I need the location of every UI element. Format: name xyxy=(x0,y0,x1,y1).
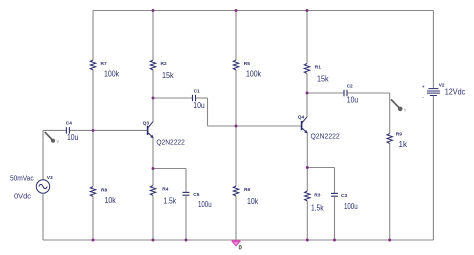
svg-text:R4: R4 xyxy=(162,186,168,192)
wire source vertical top xyxy=(42,130,44,179)
svg-text:10u: 10u xyxy=(193,101,204,110)
junction top rail at R5 xyxy=(235,9,238,12)
capacitor C5 xyxy=(183,192,190,195)
ac source V3 xyxy=(36,180,49,193)
capacitor C4 xyxy=(66,127,69,133)
svg-text:10k: 10k xyxy=(247,197,259,206)
wire C3 bottom to ground rail xyxy=(334,196,336,240)
wire Q4 emitter to R3 xyxy=(306,168,308,192)
wire Q4 emitter down xyxy=(306,133,308,168)
svg-text:1.5k: 1.5k xyxy=(164,196,177,205)
wire Q4 base node to R6 xyxy=(235,126,237,186)
wire branch x=153 (rail to R2) xyxy=(152,11,154,61)
wire input top: source to C4 xyxy=(43,129,66,131)
wire branch x=307 (rail to R1) xyxy=(306,11,308,64)
resistor R3 xyxy=(305,191,310,201)
wire top supply rail xyxy=(93,10,433,12)
junction Q4 emitter node xyxy=(306,166,309,169)
svg-text:100k: 100k xyxy=(246,69,262,78)
svg-text:100u: 100u xyxy=(344,202,358,211)
wire C1 corner down xyxy=(207,98,209,126)
wire left branch x=93 (rail to R7) xyxy=(92,11,94,61)
svg-text:-: - xyxy=(422,95,424,101)
resistor R6 xyxy=(233,186,238,196)
svg-text:10k: 10k xyxy=(105,196,117,205)
wire R2 bottom to Q3 collector node xyxy=(152,70,154,98)
wire R4 bottom to ground rail xyxy=(152,196,154,241)
wire branch x=433 (rail to V2) xyxy=(432,11,434,89)
wire R8 bottom to ground rail xyxy=(92,197,94,241)
capacitor C3 xyxy=(331,193,338,196)
svg-text:+: + xyxy=(422,84,425,90)
ground symbol 0 xyxy=(232,241,241,246)
junction ground rail at R9 xyxy=(388,239,391,242)
svg-text:100u: 100u xyxy=(198,200,212,209)
junction ground rail at R8 xyxy=(92,239,95,242)
wire R6 bottom to ground rail xyxy=(235,196,237,240)
wire source bottom to ground rail xyxy=(42,193,44,240)
wire Q3 collector up xyxy=(152,98,154,122)
resistor R5 xyxy=(233,60,238,70)
junction ground rail at C5 xyxy=(185,239,188,242)
transistor Q3 xyxy=(148,121,154,138)
resistor R1 xyxy=(304,64,309,74)
svg-text:50mVac: 50mVac xyxy=(10,173,34,182)
voltage probe marker at input node xyxy=(45,132,60,145)
resistor R4 xyxy=(150,186,155,196)
wire branch x=236 (rail to R5) xyxy=(235,11,237,61)
svg-text:10u: 10u xyxy=(347,95,358,104)
svg-text:R8: R8 xyxy=(101,187,107,193)
wire R9 bottom to ground rail xyxy=(389,144,391,241)
svg-text:R7: R7 xyxy=(101,61,107,67)
svg-text:Q3: Q3 xyxy=(143,120,150,126)
junction top rail at R2 xyxy=(152,9,155,12)
wire R3 bottom to ground rail xyxy=(306,201,308,240)
wire C1 right to corner xyxy=(196,97,208,99)
svg-text:V3: V3 xyxy=(47,175,53,181)
svg-text:R9: R9 xyxy=(396,132,402,138)
wire R1 bottom to Q4 collector node xyxy=(306,74,308,94)
capacitor C1 xyxy=(193,95,196,101)
junction ground rail at R4 xyxy=(152,239,155,242)
svg-text:1.5k: 1.5k xyxy=(311,204,324,213)
wire C2 to output corner xyxy=(347,92,389,94)
wire R7 bottom to input node xyxy=(92,70,94,130)
wire C5 top vertical xyxy=(185,169,187,193)
svg-text:100k: 100k xyxy=(104,70,120,79)
svg-text:C3: C3 xyxy=(341,193,347,199)
svg-text:R5: R5 xyxy=(244,61,250,67)
wire C3 top vertical xyxy=(334,168,336,194)
wire bottom ground rail xyxy=(43,239,433,241)
wire C4 to Q3 base xyxy=(70,129,148,131)
junction top rail at R1 xyxy=(306,9,309,12)
svg-text:C2: C2 xyxy=(347,84,353,90)
junction input node xyxy=(92,129,95,132)
svg-text:Q2N2222: Q2N2222 xyxy=(156,137,184,146)
wire input node to R8 xyxy=(92,130,94,186)
dc source V2 battery symbol xyxy=(422,84,440,101)
wire C5 bottom to ground rail xyxy=(185,195,187,240)
svg-text:15k: 15k xyxy=(162,71,174,80)
svg-text:R6: R6 xyxy=(244,187,250,193)
svg-text:0Vdc: 0Vdc xyxy=(14,191,31,200)
resistor R9 xyxy=(387,134,392,144)
svg-text:R2: R2 xyxy=(161,61,167,67)
junction Q4 base node xyxy=(235,125,238,128)
wire to Q4 base xyxy=(208,125,302,127)
wire output corner down to R9 xyxy=(389,93,391,134)
capacitor C2 xyxy=(344,90,347,96)
wire emitter branch to C5 xyxy=(153,168,186,170)
wire Q4 emitter branch to C3 xyxy=(307,167,334,169)
junction ground rail at C3 xyxy=(333,239,336,242)
wire Q4 collector node to C2 xyxy=(307,92,344,94)
resistor R7 xyxy=(90,60,95,70)
svg-text:R1: R1 xyxy=(315,65,321,71)
resistor R2 xyxy=(150,60,155,70)
wire Q3 emitter to R4 xyxy=(152,169,154,186)
svg-text:12Vdc: 12Vdc xyxy=(445,87,465,96)
svg-text:Q4: Q4 xyxy=(298,114,305,120)
junction Q4 collector node xyxy=(306,92,309,95)
junction ground rail at R3 xyxy=(306,239,309,242)
wire Q3 collector node to C1 xyxy=(153,97,192,99)
svg-text:1k: 1k xyxy=(399,140,408,149)
svg-text:10u: 10u xyxy=(67,133,78,142)
svg-text:C1: C1 xyxy=(194,89,200,95)
svg-text:C4: C4 xyxy=(66,120,72,126)
svg-text:0: 0 xyxy=(239,245,243,251)
resistor R8 xyxy=(90,187,95,197)
junction Q3 emitter node xyxy=(152,167,155,170)
svg-text:v: v xyxy=(57,139,60,145)
svg-text:v: v xyxy=(404,107,407,113)
svg-text:Q2N2222: Q2N2222 xyxy=(311,132,340,141)
wire R5 bottom to Q4 base node xyxy=(235,70,237,126)
junction Q3 collector node xyxy=(152,97,155,100)
svg-text:15k: 15k xyxy=(317,75,329,84)
wire Q4 collector up xyxy=(306,93,308,117)
svg-text:R3: R3 xyxy=(314,192,320,198)
wire V2 bottom to ground rail xyxy=(432,96,434,240)
voltage probe marker at output node xyxy=(391,99,407,113)
wire Q3 emitter down xyxy=(152,138,154,169)
svg-text:C5: C5 xyxy=(193,192,199,198)
transistor Q4 xyxy=(302,117,308,134)
